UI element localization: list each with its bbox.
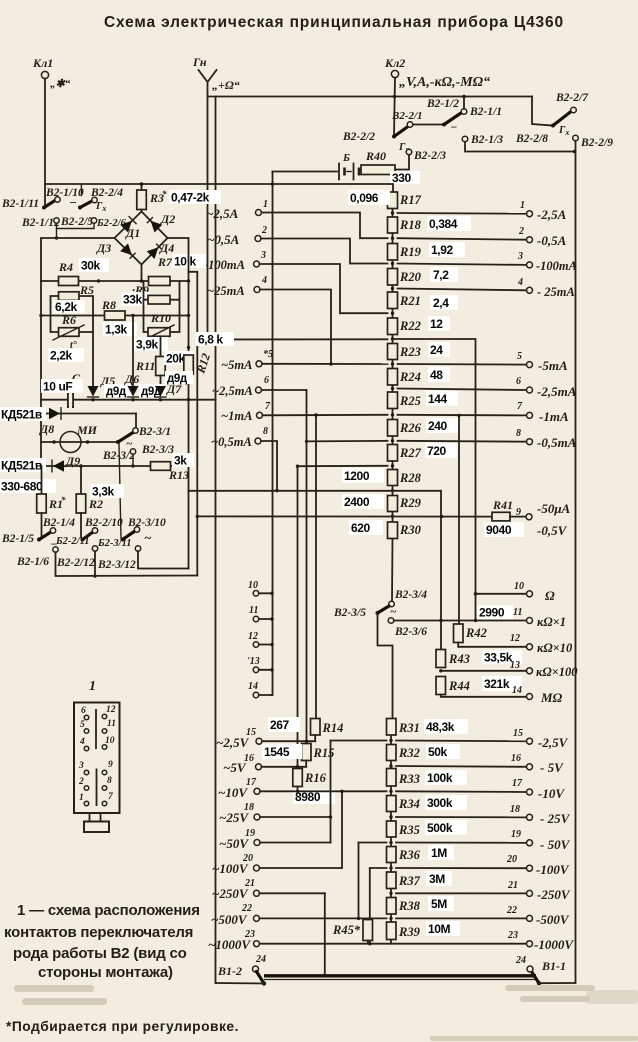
svg-text:Б2-3/11: Б2-3/11 — [97, 538, 132, 549]
value R26 240 — [426, 418, 458, 433]
diode D4 — [147, 241, 175, 259]
switch B2-1/2 blade — [426, 98, 461, 134]
svg-text:20k: 20k — [166, 352, 186, 366]
wire tap16 — [262, 766, 307, 768]
resistor R27 — [388, 445, 422, 462]
svg-text:1: 1 — [520, 200, 525, 211]
resistor R9 — [132, 277, 170, 298]
contact B2-2/1 — [391, 110, 423, 127]
svg-text:3: 3 — [517, 251, 523, 262]
svg-text:кΩ×1: кΩ×1 — [537, 615, 566, 629]
wire R15 bottom — [305, 761, 307, 767]
value R13 3k — [172, 453, 194, 468]
resistor R17 — [388, 192, 422, 209]
svg-text:Ω: Ω — [545, 588, 555, 603]
thermistor R6 — [53, 325, 84, 351]
terminal 12 left — [248, 631, 259, 647]
svg-text:10M: 10M — [428, 922, 451, 936]
terminal 18 left ~25V — [219, 802, 260, 825]
svg-text:Д3: Д3 — [96, 241, 111, 255]
wire bridge bottom down — [141, 265, 143, 282]
terminal Кл1 — [32, 56, 71, 90]
nodes common bus — [91, 398, 94, 401]
svg-text:19: 19 — [511, 829, 521, 840]
node bus B2-1/3 junction — [573, 150, 577, 154]
resistor R43 — [436, 650, 470, 668]
svg-text:В1-2: В1-2 — [217, 964, 242, 978]
svg-text:В2-3/5: В2-3/5 — [333, 607, 366, 619]
wire B2-3/3 stub — [132, 454, 134, 466]
value R35 500k — [425, 820, 467, 835]
resistor R38 — [387, 898, 421, 915]
svg-text:В2-2/12: В2-2/12 — [56, 557, 95, 569]
wire R42 to kΩx10 — [458, 643, 526, 647]
wire border jog to second riser — [189, 272, 198, 576]
wire T6 right — [262, 389, 307, 391]
svg-text:3: 3 — [260, 250, 266, 261]
wire right 21 -250V — [396, 892, 526, 894]
svg-text:В2-1/3: В2-1/3 — [470, 134, 503, 146]
svg-text:22: 22 — [241, 903, 252, 914]
svg-text:18: 18 — [510, 804, 520, 815]
svg-text:5: 5 — [80, 720, 85, 730]
svg-text:3k: 3k — [174, 454, 187, 468]
node B2-2/12 junction — [93, 574, 96, 577]
resistor R2 — [76, 466, 103, 538]
svg-text:R35: R35 — [398, 823, 420, 837]
value R32 50k — [426, 744, 460, 759]
wire AC volt riser — [330, 741, 332, 843]
diode D5 — [88, 374, 116, 397]
value D6 д9д — [139, 384, 167, 398]
svg-text:24: 24 — [515, 955, 526, 966]
svg-text:*5: *5 — [263, 349, 273, 360]
wire right 15 -2,5V — [396, 740, 526, 743]
value R42 2990 — [477, 605, 513, 620]
wire right 16 -5V — [396, 765, 526, 768]
terminal right 22 — [506, 905, 570, 927]
terminal right 21 — [507, 880, 571, 902]
svg-text:11: 11 — [249, 605, 258, 616]
svg-text:3,9k: 3,9k — [136, 338, 158, 352]
svg-text:Б2-2/6: Б2-2/6 — [96, 218, 127, 229]
svg-text:21: 21 — [507, 880, 518, 891]
node Ω tap — [474, 592, 478, 596]
svg-text:R28: R28 — [399, 471, 422, 485]
svg-text:20: 20 — [242, 853, 253, 864]
resistor R28 — [388, 470, 422, 486]
wire right 20 -100V — [396, 867, 526, 869]
resistor R44 — [436, 677, 470, 695]
value R44 321k — [482, 676, 522, 691]
chain2 junction nodes — [389, 739, 392, 742]
terminal 14 left — [248, 681, 259, 698]
wire Кл1 bus to chain — [45, 183, 273, 185]
svg-text:- 5V: - 5V — [540, 760, 564, 775]
svg-text:R24: R24 — [399, 370, 421, 384]
wire right 7 -1mA — [398, 414, 527, 417]
svg-text:6: 6 — [264, 375, 269, 386]
wire terminals 10-14 collector — [259, 593, 271, 695]
wire D6 riser — [132, 316, 134, 387]
svg-text:-0,5V: -0,5V — [537, 523, 568, 538]
svg-text:рода работы В2 (вид со: рода работы В2 (вид со — [13, 945, 187, 962]
wire bus corner to B2-2/8 — [532, 97, 552, 126]
svg-text:48,3k: 48,3k — [426, 720, 455, 734]
svg-text:R26: R26 — [399, 421, 422, 435]
terminal right 15 — [513, 728, 569, 750]
wire tap21 — [260, 892, 325, 894]
svg-text:R39: R39 — [398, 925, 421, 939]
terminal 23 left ~1000V — [208, 929, 260, 952]
value D8 КД521в — [0, 407, 46, 422]
terminal 7 ~1mA — [221, 401, 271, 423]
terminal 12 right kΩx10 — [510, 633, 573, 655]
value D9 КД521в — [0, 458, 46, 473]
svg-text:-250V: -250V — [537, 887, 571, 902]
resistor R30 — [388, 522, 422, 539]
node bridge bottom junction — [140, 279, 143, 282]
svg-text:~: ~ — [390, 606, 397, 618]
svg-text:300k: 300k — [427, 796, 453, 810]
terminal Гн fork — [192, 55, 240, 92]
value D7 д9д — [165, 371, 193, 385]
terminal 8 ~0,5mA — [211, 426, 268, 449]
svg-text:В2-1/5: В2-1/5 — [1, 533, 34, 545]
svg-text:16: 16 — [244, 753, 254, 764]
svg-text:4: 4 — [261, 275, 267, 286]
wire T3 to chain — [260, 264, 388, 313]
terminal right 8 — [516, 428, 577, 450]
svg-text:Д2: Д2 — [160, 212, 175, 226]
contact B2-1/4 — [42, 517, 75, 533]
node R4 right junction — [97, 279, 100, 282]
svg-text:контактов переключателя: контактов переключателя — [4, 924, 193, 941]
svg-text:д9д: д9д — [106, 386, 127, 398]
terminal 6 ~2,5mA — [212, 375, 269, 398]
label R7 — [157, 254, 206, 269]
svg-text:МИ: МИ — [76, 423, 98, 437]
contact B2-3/1 — [133, 426, 171, 438]
svg-text:620: 620 — [351, 521, 371, 535]
svg-text:„V,A,-кΩ,-МΩ“: „V,A,-кΩ,-МΩ“ — [399, 75, 490, 90]
contact B2-2/4 — [90, 187, 123, 203]
terminal 19 left ~50V — [219, 828, 260, 851]
svg-text:стороны монтажа): стороны монтажа) — [38, 964, 173, 981]
svg-text:~5mA: ~5mA — [221, 358, 252, 372]
wire stub near B2-1/10 — [80, 185, 82, 196]
wire tap17 to chain — [260, 790, 387, 792]
svg-text:В2-2/10: В2-2/10 — [84, 517, 123, 529]
svg-text:R14: R14 — [322, 721, 344, 735]
svg-text:КД521в: КД521в — [1, 459, 42, 473]
value R6 2,2k — [48, 348, 84, 363]
node Кл2 bus junction — [393, 95, 397, 99]
wire B2-3/6 to kΩx1 — [394, 620, 526, 622]
rail bottom thick — [264, 974, 536, 977]
svg-text:6,2k: 6,2k — [55, 300, 77, 314]
value R23 24 — [428, 342, 450, 357]
svg-text:МΩ: МΩ — [540, 690, 563, 705]
capacitor C — [68, 371, 81, 408]
contact B2-1/6 — [16, 547, 58, 568]
svg-text:15: 15 — [513, 728, 523, 739]
svg-text:10 uF: 10 uF — [43, 380, 72, 394]
svg-text:12: 12 — [248, 631, 258, 642]
svg-text:1,3k: 1,3k — [105, 323, 127, 337]
terminal 20 left ~100V — [212, 853, 260, 876]
value R27 720 — [425, 443, 457, 458]
value R43 33,5k — [482, 650, 522, 665]
node riser tap23 — [368, 942, 371, 945]
svg-text:Б: Б — [342, 152, 350, 164]
node riser top tap17 — [340, 790, 343, 793]
switch B2-2/5 blade — [78, 201, 106, 213]
wire tap23 to chain bottom — [260, 940, 392, 944]
terminal 13 right kΩx100 — [510, 660, 578, 679]
svg-text:-5mA: -5mA — [538, 358, 568, 373]
svg-text:В2-2/3: В2-2/3 — [413, 150, 446, 162]
resistor R5 — [59, 283, 95, 300]
svg-text:2,4: 2,4 — [433, 296, 449, 310]
svg-text:~10V: ~10V — [218, 785, 248, 800]
node R16 top junction — [296, 765, 299, 768]
resistor R11 — [135, 336, 165, 386]
svg-text:12: 12 — [430, 317, 443, 331]
terminal 13 left — [247, 656, 260, 673]
wire T1 to chain — [262, 213, 388, 239]
resistor R10 — [148, 295, 171, 325]
contact B2-2/10 — [84, 517, 123, 533]
scan smudges — [14, 985, 638, 1041]
svg-text:R41: R41 — [492, 498, 513, 512]
svg-text:В2-1/4: В2-1/4 — [42, 517, 75, 529]
resistor R34 — [387, 796, 420, 812]
wire R16 bottom to tap17 — [297, 787, 299, 792]
svg-text:- 25mA: - 25mA — [537, 285, 575, 299]
switch B2-2/2 blade — [342, 127, 409, 155]
svg-text:R13: R13 — [168, 468, 189, 482]
resistor R23 — [388, 344, 421, 360]
value D5 д9д — [104, 384, 132, 398]
terminal 17 left ~10V — [218, 777, 260, 800]
switch B2-1/11 blade — [1, 195, 77, 210]
svg-text:R22: R22 — [399, 319, 421, 333]
resistor R24 — [388, 369, 421, 386]
svg-text:4: 4 — [517, 277, 523, 288]
value R19 1,92 — [429, 242, 465, 257]
svg-text:1 — схема расположения: 1 — схема расположения — [17, 902, 200, 919]
svg-text:2: 2 — [518, 226, 524, 237]
svg-text:R5: R5 — [79, 283, 94, 297]
wire B2-3/5 to R31 — [378, 615, 393, 719]
resistor R12 — [184, 352, 213, 376]
svg-text:-50μA: -50μA — [537, 501, 571, 516]
svg-text:~: ~ — [126, 438, 133, 450]
resistor R15 — [302, 744, 335, 761]
wire battery riser long — [272, 184, 274, 695]
svg-text:Д4: Д4 — [159, 241, 174, 255]
resistor R42 — [454, 624, 487, 643]
parallel group R9 R10 frame — [144, 281, 180, 332]
value C 10uF — [41, 379, 83, 394]
svg-text:30k: 30k — [81, 259, 101, 273]
nodes collector — [270, 592, 274, 596]
terminal 2 ~0,5A — [207, 225, 267, 247]
contact B2-3/4 — [389, 589, 427, 607]
wire B2-3/12 to border — [138, 551, 189, 568]
node second riser R29 wire — [196, 515, 199, 518]
terminal right 4 — [517, 277, 575, 299]
wire D9 R13 row — [41, 465, 189, 467]
svg-text:33,5k: 33,5k — [484, 651, 513, 665]
value R41 9040 — [484, 522, 524, 537]
wire R36/R37 junction left — [370, 867, 387, 869]
terminal 1 ~2,5A — [206, 199, 268, 221]
diode D9 — [52, 460, 64, 472]
svg-text:-2,5mA: -2,5mA — [537, 384, 577, 399]
wire left bus bottom corner — [216, 982, 265, 985]
wire R43 riser — [440, 491, 442, 650]
svg-text:12: 12 — [510, 633, 520, 644]
wire R14 bottom — [314, 735, 316, 741]
svg-text:В2-2/8: В2-2/8 — [515, 133, 548, 145]
wire D5 riser — [92, 332, 94, 386]
wire R16 riser — [297, 466, 299, 768]
svg-text:267: 267 — [270, 718, 290, 732]
wire T5 to chain — [262, 363, 388, 365]
svg-text:R30: R30 — [399, 523, 422, 537]
svg-text:50k: 50k — [428, 745, 448, 759]
wire B2-1/12 down to box — [56, 229, 58, 239]
svg-text:Кл1: Кл1 — [32, 56, 53, 70]
terminal right 3 — [517, 251, 577, 273]
wire R27/R28 junction left — [298, 465, 388, 467]
svg-text:- 50V: - 50V — [540, 837, 571, 852]
svg-text:17: 17 — [246, 777, 257, 788]
wire Гн stem to chain R22/R23 — [208, 338, 388, 340]
svg-text:330-680: 330-680 — [1, 480, 43, 494]
node B1-1 blade end — [537, 981, 541, 985]
terminal 10 left — [248, 580, 259, 596]
svg-text:48: 48 — [430, 368, 443, 382]
wire T2 to chain — [261, 239, 388, 264]
svg-text:14: 14 — [512, 685, 522, 696]
terminal 9 -50uA — [516, 501, 571, 538]
resistor R16 — [293, 769, 327, 787]
svg-text:„+Ω“: „+Ω“ — [212, 78, 240, 92]
node T4 junction — [329, 362, 332, 365]
resistor R41 — [492, 498, 513, 521]
svg-text:Д8: Д8 — [39, 422, 54, 436]
svg-text:23: 23 — [244, 929, 255, 940]
connector layout figure 1 — [74, 679, 120, 832]
wire Гн stem — [207, 82, 209, 340]
svg-text:В2-3/6: В2-3/6 — [394, 626, 427, 638]
svg-text:В2-2/4: В2-2/4 — [90, 187, 123, 199]
contact B2-1/1 — [461, 106, 502, 118]
resistor R13 — [151, 462, 190, 482]
wire R26/R27 junction left — [307, 440, 388, 443]
chain junction nodes — [391, 211, 394, 214]
resistor R26 — [388, 420, 422, 437]
terminal 4 ~25mA — [207, 275, 267, 298]
svg-text:720: 720 — [427, 444, 447, 458]
svg-text:500k: 500k — [427, 821, 453, 835]
terminal right 7 — [517, 401, 569, 424]
resistor R22 — [388, 318, 421, 335]
wire riser tap19-tap22 — [358, 843, 360, 919]
svg-text:R43: R43 — [448, 652, 470, 666]
value R14 267 — [268, 717, 300, 732]
wire Кл2 down — [394, 78, 395, 136]
value R38 5M — [428, 896, 454, 911]
resistor R32 — [387, 745, 420, 761]
switch B2-3/5 blade — [333, 606, 397, 619]
svg-text:В2-2/7: В2-2/7 — [555, 92, 589, 104]
svg-text:R32: R32 — [398, 746, 420, 760]
svg-text:1: 1 — [89, 679, 96, 694]
svg-text:24: 24 — [255, 954, 266, 965]
svg-text:33k: 33k — [123, 293, 143, 307]
svg-text:R25: R25 — [399, 394, 421, 408]
wire R4 R9 row — [41, 280, 189, 282]
wire right 5 -5mA — [398, 363, 527, 366]
node R16 riser top — [296, 465, 299, 468]
wire B2-2/12 stub — [94, 551, 96, 576]
svg-text:R18: R18 — [399, 218, 422, 232]
svg-text:10: 10 — [514, 581, 524, 592]
svg-text:~2,5A: ~2,5A — [206, 206, 239, 221]
svg-text:6: 6 — [516, 376, 521, 387]
svg-text:100k: 100k — [427, 771, 453, 785]
svg-text:кΩ×10: кΩ×10 — [537, 641, 573, 655]
terminal right 1 — [520, 200, 567, 222]
node B1-2 blade end — [262, 981, 266, 985]
svg-text:~25mA: ~25mA — [207, 284, 245, 298]
svg-text:0,47-2k: 0,47-2k — [171, 191, 210, 205]
wire left border vertical — [40, 281, 42, 466]
svg-text:3M: 3M — [429, 872, 445, 886]
svg-text:*: * — [162, 189, 167, 199]
wire battery to chain top — [273, 172, 394, 192]
contact B2-3/3 — [130, 444, 174, 456]
svg-text:~0,5A: ~0,5A — [207, 232, 240, 247]
svg-text:12: 12 — [106, 705, 116, 715]
terminal 3 ~100mA — [201, 250, 266, 272]
wire B2-2/3 to R40 — [396, 155, 410, 170]
svg-text:д9д: д9д — [167, 373, 188, 385]
svg-text:R21: R21 — [399, 294, 421, 308]
wire tap21 riser to rail — [324, 893, 326, 976]
node battery junction — [271, 182, 275, 186]
svg-text:23: 23 — [507, 930, 518, 941]
terminal right 17 — [512, 778, 565, 801]
wire Ω tap — [476, 593, 527, 595]
svg-text:9: 9 — [108, 760, 113, 770]
svg-text:7,2: 7,2 — [433, 268, 449, 282]
value R11 20k — [164, 351, 194, 366]
svg-text:24: 24 — [430, 343, 443, 357]
svg-text:321k: 321k — [484, 677, 510, 691]
svg-text:~: ~ — [144, 530, 152, 545]
resistor chain R31-R39 spine — [390, 735, 392, 745]
svg-text:5: 5 — [517, 351, 522, 362]
value R24 48 — [428, 367, 450, 382]
resistor R36 — [387, 847, 421, 863]
wire tap15 — [262, 740, 315, 742]
diode D6 — [124, 372, 139, 397]
